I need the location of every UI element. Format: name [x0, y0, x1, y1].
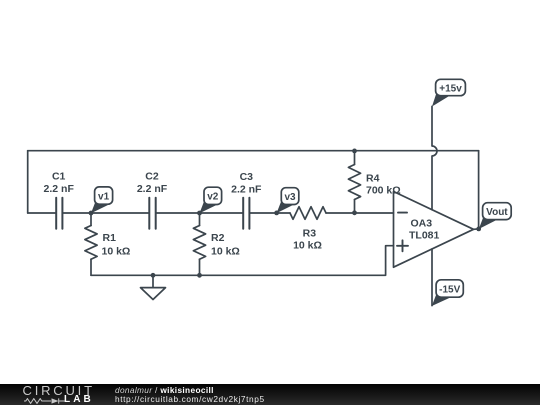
footer bar — [0, 384, 540, 405]
label C3 value — [231, 171, 262, 196]
wire -15V supply — [431, 249, 433, 306]
svg-text:+15v: +15v — [439, 83, 462, 94]
label R1 value — [102, 232, 131, 258]
node v1 flag — [91, 187, 113, 213]
credit line 2 — [115, 394, 265, 404]
wire +15v supply with hop over top wire — [432, 106, 437, 209]
label R3 value — [293, 227, 322, 251]
svg-text:OA3: OA3 — [411, 218, 433, 230]
svg-text:v2: v2 — [207, 192, 219, 203]
node R2 bottom dot — [197, 273, 202, 278]
label OA3 TL081 — [409, 218, 440, 242]
svg-text:2.2 nF: 2.2 nF — [44, 183, 75, 195]
node v3 flag — [277, 188, 299, 213]
op-amp output stub — [474, 228, 479, 230]
resistor R3 — [290, 207, 326, 220]
+15v supply flag — [432, 79, 465, 106]
CircuitLab logo schematic squiggle — [24, 398, 65, 404]
label R2 value — [211, 232, 240, 258]
svg-text:C3: C3 — [240, 171, 254, 183]
label C2 value — [137, 171, 168, 196]
svg-text:Vout: Vout — [486, 207, 508, 218]
node v2 dot — [197, 211, 202, 216]
node v3 dot — [274, 211, 279, 216]
credit line 1 — [115, 385, 214, 395]
node v2 flag — [200, 187, 222, 213]
node ground dot — [151, 273, 156, 278]
svg-text:v3: v3 — [284, 192, 296, 203]
wire top horizontal — [28, 150, 479, 152]
svg-text:v1: v1 — [98, 191, 110, 202]
junction dots — [89, 149, 482, 278]
wire R3 to op-amp inverting input — [326, 212, 394, 214]
op-amp non-inverting input marker — [397, 240, 408, 251]
wire C3 to R3 through node v3 — [250, 212, 290, 214]
resistor R4 — [348, 151, 360, 213]
op-amp inverting input marker — [398, 212, 407, 214]
wire right drop to output — [478, 151, 480, 229]
svg-text:C2: C2 — [145, 171, 159, 183]
capacitor C2 — [149, 198, 155, 229]
svg-text:10 kΩ: 10 kΩ — [211, 246, 240, 258]
CircuitLab logo word — [23, 383, 95, 398]
svg-text:10 kΩ: 10 kΩ — [102, 246, 131, 258]
label R4 value — [366, 173, 401, 197]
capacitor C3 — [243, 198, 249, 229]
op-amp U1 triangle — [394, 192, 474, 268]
svg-text:R2: R2 — [211, 232, 225, 244]
svg-text:10 kΩ: 10 kΩ — [293, 240, 322, 252]
wire left to C1 — [28, 212, 56, 214]
capacitor C1 — [56, 198, 62, 229]
node v1 dot — [89, 211, 94, 216]
svg-text:C1: C1 — [52, 171, 66, 183]
wire C2 to C3 through node v2 — [156, 212, 243, 214]
resistor R2 — [193, 213, 205, 275]
Vout flag — [479, 203, 511, 229]
node output dot — [476, 227, 481, 232]
node R4 top dot — [352, 149, 357, 154]
wire left vertical — [27, 151, 29, 213]
ground — [141, 275, 166, 299]
CircuitLab logo LAB — [64, 394, 94, 405]
svg-text:700 kΩ: 700 kΩ — [366, 185, 401, 197]
wire bottom rail — [91, 246, 394, 276]
resistor R1 — [85, 213, 97, 275]
wire C1 to C2 through node v1 — [63, 212, 149, 214]
svg-text:2.2 nF: 2.2 nF — [231, 184, 262, 196]
svg-text:2.2 nF: 2.2 nF — [137, 183, 168, 195]
svg-text:TL081: TL081 — [409, 230, 440, 242]
-15V supply flag — [432, 280, 464, 306]
svg-text:R4: R4 — [366, 173, 380, 185]
svg-text:-15V: -15V — [439, 285, 460, 296]
node R4 bottom dot — [352, 210, 357, 215]
svg-text:R3: R3 — [303, 227, 317, 239]
label C1 value — [44, 171, 75, 196]
svg-text:R1: R1 — [103, 232, 117, 244]
